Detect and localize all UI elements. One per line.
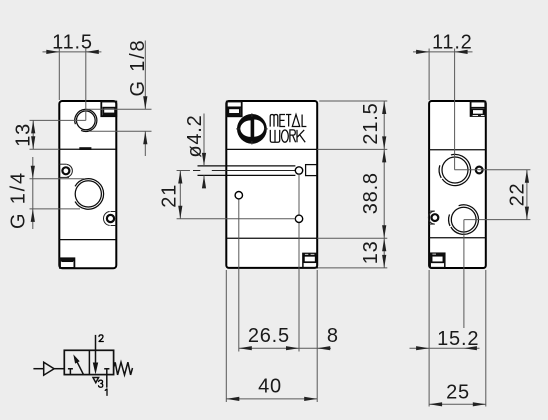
- right view upper port inner circle: [442, 157, 468, 183]
- middle view ext line vertical right holes: [298, 174, 300, 351]
- dim 21 arrow up: [178, 171, 182, 184]
- left view bottom-left tab outer: [60, 258, 74, 268]
- left view small hole A thread arc: [67, 164, 73, 177]
- right view top-right tab bottom band dash 2: [481, 114, 484, 117]
- left view G1/4 port inner circle: [75, 181, 101, 207]
- right view bottom-left tab top band dash: [432, 253, 436, 256]
- dim 13 ext bottom: [30, 148, 60, 150]
- left view G1/4 port outer thread arc: [75, 179, 104, 210]
- middle view bottom-right tab top band dash 1: [305, 253, 308, 256]
- G1/8 leader arrow down: [143, 96, 147, 109]
- dim 21 ext bottom: [177, 218, 296, 220]
- middle view right hole: [295, 215, 302, 222]
- right view upper small hole ring: [476, 167, 483, 174]
- dim 11.5 ext line right / port centerline: [85, 49, 87, 121]
- left view small hole B tangent top: [111, 211, 117, 213]
- svg-text:26.5: 26.5: [248, 325, 290, 347]
- dim 21 ext top: [177, 170, 190, 172]
- dim 25 ext right: [485, 270, 487, 407]
- dim chain ext bottom: [317, 267, 387, 269]
- dim 11.2 arrow right: [455, 50, 468, 54]
- pilot hole end circle: [295, 167, 302, 174]
- logo right half-moon: [254, 120, 264, 137]
- schematic port 2 line: [95, 335, 97, 364]
- dim 13 arrow up: [31, 120, 35, 133]
- dim 15.2 arrow left: [416, 346, 429, 350]
- schematic port 2 arrowhead: [93, 363, 98, 375]
- left view small hole A ring: [62, 167, 69, 174]
- right view top-right tab outer: [471, 102, 486, 117]
- dim 11.5 arrow left: [46, 50, 59, 54]
- dim 13 ext top / port centerline left: [30, 119, 86, 121]
- schematic box divider: [88, 350, 90, 374]
- schematic exhaust triangle 3: [93, 378, 99, 383]
- logo tick left: [236, 128, 240, 130]
- right view lower small hole tangent bottom: [429, 223, 435, 225]
- dim o4.2 leader line upper: [203, 114, 205, 166]
- dim 40 line: [226, 398, 317, 400]
- dim 21 line: [179, 171, 181, 219]
- left view body: [59, 101, 116, 268]
- right view upper port thread arc tail: [439, 165, 441, 178]
- schematic label 2: [99, 335, 103, 342]
- schematic left cell blocked port T: [68, 369, 73, 375]
- schematic valve box: [64, 350, 113, 374]
- middle view bottom-right tab top band: [303, 253, 317, 255]
- svg-text:21.5: 21.5: [360, 102, 382, 144]
- middle view divider lower: [226, 237, 317, 239]
- left view top-right tab inner: [103, 108, 115, 116]
- dim 21.5 arrow up: [382, 101, 386, 114]
- dim 22 arrow down: [525, 207, 529, 220]
- left view small hole B ring: [107, 215, 114, 222]
- dim 11.2 arrow left: [416, 50, 429, 54]
- logo disc: [237, 114, 267, 144]
- dim 15.2 line: [410, 347, 480, 349]
- logo tick right: [264, 128, 268, 130]
- right view bottom-left tab outer: [430, 253, 445, 267]
- G1/8 top tangent ext: [86, 108, 152, 110]
- dim 21 arrow down: [178, 206, 182, 219]
- left view divider upper: [59, 148, 116, 150]
- dim chain ext top: [319, 100, 387, 102]
- dim chain ext mid2: [317, 237, 387, 239]
- schematic pilot line left: [33, 368, 43, 370]
- middle view left hole: [235, 192, 242, 199]
- pilot hole bottom line: [198, 174, 296, 176]
- dim 13b arrow up: [382, 238, 386, 251]
- svg-text:38.8: 38.8: [360, 172, 382, 214]
- dim 8 line: [299, 347, 331, 349]
- dim 22 arrow up: [525, 170, 529, 183]
- right view upper port thread arc: [442, 154, 470, 185]
- dim 13b arrow down: [382, 255, 386, 268]
- dim o4.2 arrow down: [202, 153, 206, 166]
- dim G1/4 ext bottom: [30, 208, 81, 210]
- svg-text:21: 21: [158, 184, 180, 208]
- left view small hole A tangent top: [59, 163, 66, 165]
- dim 40 ext right: [316, 270, 318, 402]
- dim G1/4 arrow down: [31, 166, 35, 179]
- left view divider lower: [59, 239, 116, 241]
- dim 26.5 arrow right: [286, 346, 299, 350]
- middle view top-left tab dark band: [228, 113, 240, 116]
- svg-text:13: 13: [13, 123, 35, 147]
- svg-text:40: 40: [258, 376, 282, 398]
- logo text METAL: [270, 115, 306, 127]
- G1/8 bottom tangent ext: [89, 130, 152, 132]
- G1/8 leader line: [144, 41, 146, 110]
- middle view top-left tab inner: [228, 108, 240, 116]
- dim o4.2 arrow up: [202, 175, 206, 188]
- left view top-right tab dark band: [103, 113, 115, 116]
- dim G1/4 arrow up: [31, 209, 35, 222]
- left view top-right tab outer: [101, 102, 116, 117]
- dim 15.2 arrow right: [464, 346, 477, 350]
- left view bottom-left tab dark top band: [61, 259, 74, 262]
- schematic port 1 line: [104, 369, 109, 388]
- logo left half-moon: [240, 120, 250, 136]
- right view lower port thread arc: [451, 205, 479, 235]
- schematic left cell flow line: [75, 358, 83, 374]
- svg-text:13: 13: [360, 240, 382, 264]
- middle view top-left tab midline: [227, 106, 242, 108]
- right view lower small hole tangent top: [429, 210, 435, 212]
- dim 26.5 line: [239, 347, 299, 349]
- svg-text:22: 22: [506, 183, 528, 207]
- dim chain line: [383, 101, 385, 268]
- dim 11.5 arrow right: [86, 50, 99, 54]
- right view top-right tab midline: [471, 107, 486, 109]
- left view G1/8 port outer thread arc: [75, 109, 97, 131]
- pilot port square: [306, 165, 317, 176]
- middle view ext line from left hole: [238, 199, 240, 352]
- dim 22 ext bottom: [464, 219, 531, 221]
- G1/8 lower arrow up: [143, 131, 147, 144]
- schematic label 3: [99, 380, 103, 387]
- dim 11.2 ext right / upper port centerline: [454, 49, 456, 170]
- svg-text:11.2: 11.2: [432, 32, 473, 54]
- svg-text:8: 8: [327, 325, 339, 347]
- schematic left cell flow arrowhead: [73, 354, 79, 363]
- dim 25 arrow left: [429, 402, 442, 406]
- svg-text:G 1/4: G 1/4: [8, 171, 30, 229]
- dim 26.5 arrow left: [239, 346, 252, 350]
- dim 22 ext top: [455, 169, 531, 171]
- dim 13 line: [32, 120, 34, 149]
- pilot hole top line: [198, 165, 296, 167]
- middle view body: [226, 101, 317, 268]
- logo tick top: [251, 113, 253, 117]
- right view bottom-left tab inner: [432, 256, 444, 263]
- left view slot on divider: [79, 147, 91, 150]
- right view divider upper: [429, 149, 486, 151]
- right view lower small hole arc: [428, 211, 434, 224]
- left view G1/8 port inner circle: [76, 111, 95, 130]
- dim 11.5 line: [43, 51, 102, 53]
- right view divider lower: [429, 237, 486, 239]
- pilot hole centerline: [177, 170, 303, 172]
- dim 13 arrow down: [31, 136, 35, 149]
- schematic pilot line right: [54, 368, 64, 370]
- dim G1/4 ext top: [30, 178, 86, 180]
- right view bottom-left tab top band: [430, 253, 445, 255]
- middle view bottom-right tab inner: [304, 256, 316, 262]
- dim 11.2 ext left: [428, 49, 430, 101]
- dim 15.2 ext center (port centerline): [463, 220, 465, 328]
- svg-text:25: 25: [446, 382, 470, 404]
- middle view top-left tab outer: [227, 102, 242, 117]
- dim 15.2 ext left shared 25: [428, 270, 430, 407]
- logo tick bottom: [251, 141, 253, 145]
- dim G1/4 leader line: [32, 157, 34, 229]
- middle view divider upper: [226, 148, 317, 150]
- dim 40 arrow right: [304, 397, 317, 401]
- svg-text:ø4.2: ø4.2: [184, 114, 206, 157]
- dim 21.5 arrow down: [382, 136, 386, 149]
- dim 25 line: [429, 403, 486, 405]
- dim 11.2 line: [413, 51, 473, 53]
- dim 11.5 ext line left (body edge up): [58, 49, 60, 101]
- dim o4.2 leader line lower: [203, 175, 205, 185]
- left view small hole B thread arc: [103, 212, 109, 226]
- G1/8 lower arrow line: [144, 131, 146, 156]
- left view small hole B tangent bottom: [111, 225, 117, 227]
- right view top-right tab inner: [472, 109, 484, 114]
- right view lower port thread arc tail: [449, 214, 450, 226]
- left view bottom-left tab inner line: [62, 260, 74, 262]
- middle view bottom-right tab outer: [303, 253, 317, 267]
- schematic spring: [114, 362, 133, 375]
- dim chain ext mid1: [317, 148, 387, 150]
- logo text WORK: [270, 130, 305, 142]
- dim 22 line: [526, 170, 528, 220]
- left view small hole A tangent bottom: [59, 176, 69, 178]
- dim 38.8 arrow up: [382, 149, 386, 162]
- dim 38.8 arrow down: [382, 225, 386, 238]
- svg-text:11.5: 11.5: [52, 32, 93, 54]
- right view top-right tab bottom band: [471, 115, 484, 117]
- schematic label 1: [105, 389, 107, 396]
- dim 8 arrow: [317, 346, 330, 350]
- dim 40 ext left: [225, 270, 227, 402]
- right view lower port inner circle: [451, 207, 476, 232]
- dim 25 arrow right: [473, 402, 486, 406]
- right view top-right tab bottom band dash 1: [473, 114, 478, 117]
- dim 40 arrow left: [226, 397, 239, 401]
- svg-text:15.2: 15.2: [437, 328, 479, 350]
- right view lower small hole ring: [432, 214, 439, 221]
- right view body: [429, 101, 486, 268]
- schematic pilot triangle: [44, 362, 54, 375]
- middle view bottom-right tab top band dash 2: [311, 253, 315, 256]
